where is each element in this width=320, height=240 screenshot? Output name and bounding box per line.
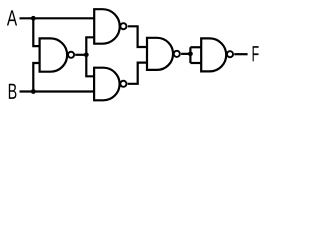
bubble U4 <box>174 51 180 57</box>
input label B <box>9 84 17 99</box>
wire A branch down to U1 top input <box>33 18 39 46</box>
wire J2 to U5 bottom input <box>190 62 201 64</box>
wire U3 output to U4 bottom input <box>128 63 147 84</box>
node J2 junction dot <box>188 51 193 56</box>
node J1 junction dot <box>84 52 89 57</box>
wire J1 up to U2 lower input <box>86 37 94 55</box>
node A junction dot <box>31 16 36 21</box>
nand gate U1 <box>40 38 68 71</box>
nand gate U2 <box>94 9 120 44</box>
input label A <box>7 10 17 25</box>
bubble U1 <box>68 52 74 58</box>
wire B horizontal <box>20 90 95 92</box>
wire J2 split to U5 inputs <box>189 47 191 63</box>
wire U5 output to F <box>234 53 247 55</box>
bubble U5 <box>227 51 233 57</box>
wire A horizontal <box>20 17 95 19</box>
wire U4 output to node J2 <box>181 53 190 55</box>
nand gate U5 <box>201 38 226 71</box>
node B junction dot <box>31 89 36 94</box>
wire J1 down to U3 upper input <box>86 55 94 77</box>
nand gate U4 <box>147 38 173 70</box>
bubble U2 <box>120 23 126 29</box>
output label F <box>253 46 259 61</box>
wire U2 output to U4 top input <box>128 26 147 47</box>
wire B branch up to U1 bottom input <box>33 63 39 92</box>
wire U1 output to node J1 <box>75 54 86 56</box>
bubble U3 <box>120 81 126 87</box>
nand gate U3 <box>94 68 120 101</box>
wire J2 to U5 top input <box>190 46 201 48</box>
